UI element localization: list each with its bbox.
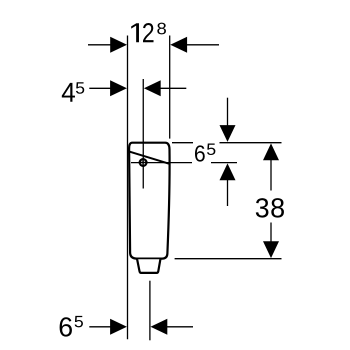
label 12.8 superscript 8 bbox=[157, 23, 166, 35]
label 6.5 right superscript 5 bbox=[207, 144, 215, 156]
extension line bottom spigot centre (x=149.9) bbox=[149, 281, 151, 341]
dim 6.5 bottom right arrow bbox=[151, 319, 168, 335]
extension line mid-right horizontal y=162.6 seg A bbox=[131, 162, 192, 164]
extension line right-top (x=169.7) bbox=[169, 36, 171, 139]
dim 6.5 right: down arrow tail bbox=[227, 98, 229, 127]
extension line bottom horizontal y=258.7 bbox=[175, 258, 282, 260]
extension line top-right horizontal y=142.7 seg B bbox=[220, 142, 282, 144]
dim 6.5 bottom left arrow bbox=[110, 319, 127, 335]
screw cross bbox=[139, 158, 148, 167]
spigot bbox=[137, 259, 160, 273]
cistern body outline bbox=[129, 143, 169, 259]
dim 6.5 right: down arrow bbox=[220, 125, 236, 142]
dim 12.8 right tail bbox=[186, 44, 219, 46]
dim 6.5 bottom left tail bbox=[89, 326, 112, 328]
dim 38: upper tail bbox=[270, 159, 272, 191]
dim 38: up arrow bbox=[263, 143, 279, 160]
dim 6.5 right: up arrow tail bbox=[227, 179, 229, 207]
screw outer bbox=[139, 158, 148, 167]
extension line centre (x=143.25 through screw) bbox=[142, 79, 144, 189]
dim 6.5 right: up arrow bbox=[220, 163, 236, 180]
extension line mid-right horizontal y=162.6 seg B bbox=[211, 162, 237, 164]
dim 12.8 left tail bbox=[88, 44, 113, 46]
dim 38: lower tail bbox=[270, 223, 272, 243]
label 4.5 superscript 5 bbox=[76, 82, 84, 94]
dim 4.5 left arrow bbox=[110, 80, 127, 96]
label 38 digit 8 bbox=[271, 198, 284, 217]
label 38 digit 3 bbox=[256, 198, 269, 217]
label 4.5 digit 4 bbox=[62, 83, 75, 102]
label 6.5 bottom digit 6 bbox=[60, 317, 72, 336]
cistern lid seam bbox=[129, 152, 170, 164]
extension line top-right horizontal y=142.7 seg A bbox=[172, 142, 193, 144]
dim 6.5 bottom right tail bbox=[166, 326, 193, 328]
label 12.8 digit 2 bbox=[143, 23, 154, 42]
dim 12.8 left arrow bbox=[110, 37, 127, 53]
label 12.8 digit 1 bbox=[131, 23, 139, 42]
dim 4.5 right tail bbox=[159, 87, 186, 89]
dim 12.8 right arrow bbox=[170, 37, 187, 53]
dim 38: down arrow bbox=[263, 241, 279, 258]
dim 4.5 right arrow bbox=[144, 80, 161, 96]
screw inner bbox=[141, 160, 146, 165]
label 6.5 right digit 6 bbox=[195, 145, 205, 161]
label 6.5 bottom superscript 5 bbox=[75, 316, 83, 328]
dim 4.5 left tail bbox=[89, 87, 112, 89]
extension line left (x=127.5 full height) bbox=[127, 36, 129, 340]
